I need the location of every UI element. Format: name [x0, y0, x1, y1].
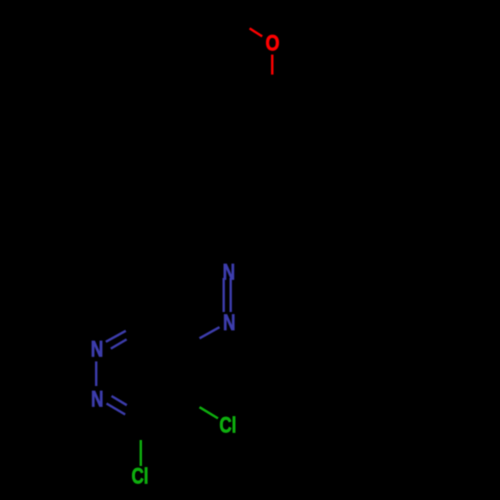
svg-text:Cl: Cl — [131, 464, 148, 489]
svg-text:N: N — [91, 337, 104, 362]
svg-text:O: O — [266, 30, 280, 55]
azo N=N double bond main line — [229, 278, 231, 312]
C6-Cl bond (Cl half) — [140, 440, 142, 466]
pyridazine N1=C3 double bond main line — [106, 331, 126, 342]
azo N=N double bond second line — [222, 278, 224, 312]
svg-text:N: N — [223, 310, 236, 335]
azo N to pyridazine C4 bond (N half) — [200, 327, 220, 338]
methoxy O-CH3 bond (O half) — [250, 28, 263, 36]
pyridazine N1=C3 double bond second line — [111, 339, 127, 348]
C5-Cl bond (Cl half) — [200, 407, 219, 418]
svg-text:Cl: Cl — [219, 413, 236, 438]
pyridazine N2=C6 double bond second line — [112, 396, 127, 405]
pyridazine N1-N2 bond — [95, 361, 97, 386]
pyridazine N2=C6 double bond main line — [107, 404, 126, 415]
O-phenyl bond (O half) — [271, 55, 273, 75]
svg-text:N: N — [91, 387, 104, 412]
svg-text:N: N — [223, 260, 236, 285]
